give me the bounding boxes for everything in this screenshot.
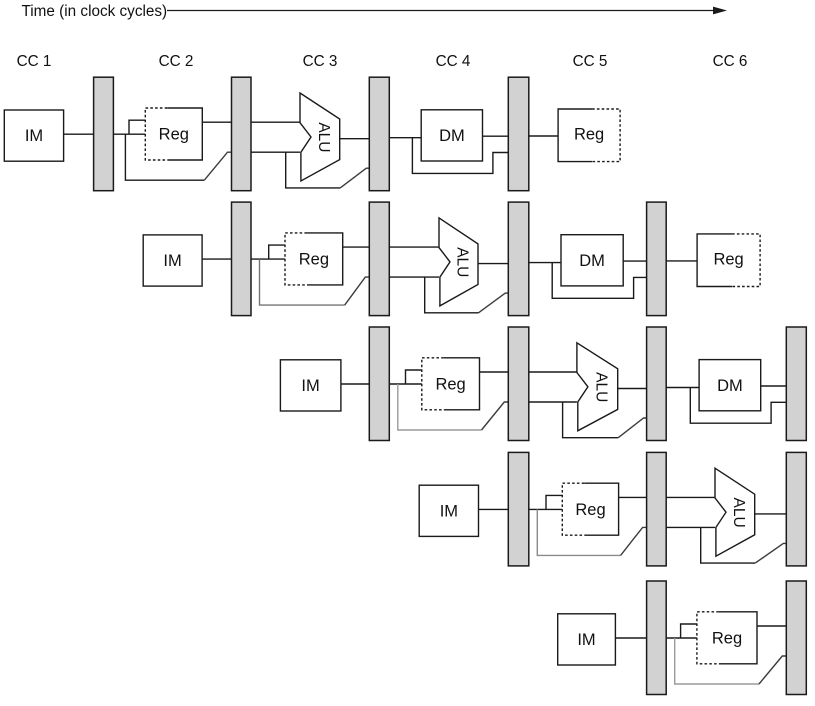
wire Reg4 second read port step <box>546 495 562 509</box>
pipeline register IF/ID (instr 2) <box>232 202 252 316</box>
wire Reg5 second read port step <box>681 624 697 638</box>
instruction memory IM (instr 3) <box>280 360 341 411</box>
wire DM2 data out <box>623 260 646 262</box>
wire write-back to Reg (instr 2) <box>666 260 697 262</box>
svg-text:Reg: Reg <box>435 376 465 394</box>
wire pipeline register to Reg3 read port <box>389 383 422 385</box>
svg-text:ALU: ALU <box>315 122 332 152</box>
instruction memory IM (instr 1) <box>4 110 63 161</box>
wire DM2 write-data bypass <box>552 263 646 299</box>
register file Reg (instr 5) dashed part <box>697 612 719 664</box>
wire ALU3 operand B <box>529 401 577 403</box>
register file write Reg (instr 2) dashed part <box>732 234 760 287</box>
pipeline register EX/MEM (instr 3) <box>647 327 667 441</box>
ALU (instr 4) <box>715 468 755 556</box>
data memory DM (instr 2) <box>561 235 623 286</box>
pipeline register ID/EX (instr 2) <box>369 202 389 316</box>
svg-text:Reg: Reg <box>299 251 329 269</box>
pipeline register EX/MEM (instr 4) <box>786 452 806 566</box>
svg-text:CC 5: CC 5 <box>573 53 608 70</box>
pipeline register ID/EX (instr 4) <box>647 452 667 566</box>
register file Reg (instr 2) solid part <box>307 233 343 285</box>
svg-text:CC 1: CC 1 <box>17 53 52 70</box>
wire ALU1 operand A <box>251 121 300 123</box>
wire Reg2 bypass below <box>260 259 345 305</box>
wire ALU2 bypass diagonal <box>479 293 509 313</box>
wire ALU1 bypass diagonal <box>340 168 369 188</box>
wire pipeline register to Reg1 read port <box>113 133 145 135</box>
wire Reg4 bypass diagonal <box>621 527 647 555</box>
register file write Reg (instr 1) dashed part <box>592 109 620 162</box>
svg-text:ALU: ALU <box>592 372 609 402</box>
register file Reg (instr 1) solid part <box>167 108 202 160</box>
wire ALU1 operand B <box>251 151 300 153</box>
instruction memory IM (instr 2) <box>143 235 202 286</box>
wire Reg3 bypass diagonal <box>482 402 509 430</box>
svg-text:Time (in clock cycles): Time (in clock cycles) <box>22 3 168 20</box>
svg-text:CC 4: CC 4 <box>436 53 471 70</box>
register file Reg (instr 2) dashed part <box>285 233 307 285</box>
pipeline register IF/ID (instr 1) <box>94 77 114 191</box>
wire Reg2 bypass diagonal <box>345 277 370 305</box>
svg-text:Reg: Reg <box>159 126 189 144</box>
pipeline register MEM/WB (instr 2) <box>647 202 667 316</box>
svg-text:IM: IM <box>301 377 319 395</box>
wire DM2 address in <box>529 262 561 264</box>
wire IM5 output to pipeline register <box>615 637 646 639</box>
register file Reg (instr 3) solid part <box>444 358 480 410</box>
data memory DM (instr 1) <box>421 110 482 161</box>
wire Reg5 bypass diagonal <box>759 656 786 684</box>
wire pipeline register to Reg2 read port <box>251 258 285 260</box>
pipeline register IF/ID (instr 3) <box>369 327 389 441</box>
svg-text:CC 2: CC 2 <box>159 53 194 70</box>
svg-text:CC 3: CC 3 <box>303 53 338 70</box>
wire pipeline register to Reg4 read port <box>529 508 563 510</box>
pipeline register ID/EX (instr 5) <box>786 581 806 695</box>
svg-text:CC 6: CC 6 <box>713 53 748 70</box>
svg-text:Reg: Reg <box>713 251 743 269</box>
svg-text:IM: IM <box>577 631 595 649</box>
wire ALU3 operand A <box>529 371 577 373</box>
svg-text:DM: DM <box>717 377 743 395</box>
wire write-back to Reg (instr 1) <box>529 135 558 137</box>
wire ALU4 operand A <box>666 496 715 498</box>
register file Reg (instr 4) solid part <box>584 483 618 535</box>
register file write Reg (instr 1) solid part <box>558 109 592 162</box>
wire Reg3 second read port step <box>406 370 422 384</box>
wire Reg5 read data out <box>757 625 786 627</box>
pipeline register ID/EX (instr 3) <box>508 327 529 441</box>
wire Reg2 second read port step <box>269 245 285 259</box>
pipeline register MEM/WB (instr 3) <box>786 327 806 441</box>
wire DM3 data out <box>761 385 787 387</box>
wire Reg4 read data out <box>619 496 647 498</box>
wire DM3 address in <box>666 387 699 389</box>
wire ALU1 store-data bypass <box>286 152 341 188</box>
svg-text:IM: IM <box>163 252 181 270</box>
wire ALU4 operand B <box>666 526 715 528</box>
wire Reg5 bypass below <box>675 638 759 684</box>
register file Reg (instr 4) dashed part <box>562 483 584 535</box>
wire IM3 output to pipeline register <box>341 383 369 385</box>
ALU (instr 3) <box>577 343 618 431</box>
register file write Reg (instr 2) solid part <box>697 234 732 287</box>
register file Reg (instr 3) dashed part <box>422 358 444 410</box>
wire ALU1 result out <box>340 138 370 140</box>
pipeline register EX/MEM (instr 2) <box>508 202 529 316</box>
pipeline register IF/ID (instr 4) <box>508 452 529 566</box>
ALU (instr 2) <box>439 218 478 306</box>
instruction memory IM (instr 4) <box>419 485 478 536</box>
wire ALU3 bypass diagonal <box>618 418 646 438</box>
wire pipeline register to Reg5 read port <box>666 637 697 639</box>
wire ALU2 operand A <box>389 246 439 248</box>
pipeline register IF/ID (instr 5) <box>647 581 667 695</box>
wire ALU2 operand B <box>389 276 439 278</box>
ALU (instr 1) <box>300 93 340 181</box>
wire ALU4 store-data bypass <box>701 527 756 563</box>
pipeline register MEM/WB (instr 1) <box>508 77 529 191</box>
wire IM1 output to pipeline register <box>64 133 94 135</box>
wire Reg3 read data out <box>480 371 509 373</box>
wire ALU2 result out <box>478 263 508 265</box>
pipeline register EX/MEM (instr 1) <box>369 77 389 191</box>
wire ALU3 result out <box>618 388 647 390</box>
wire ALU4 result out <box>755 513 787 515</box>
wire DM1 address in <box>389 137 421 139</box>
wire Reg1 read data out <box>202 121 231 123</box>
register file Reg (instr 1) dashed part <box>145 108 167 160</box>
instruction memory IM (instr 5) <box>558 614 616 665</box>
wire ALU4 bypass diagonal <box>755 543 786 563</box>
wire IM4 output to pipeline register <box>479 508 509 510</box>
wire ALU2 store-data bypass <box>425 277 479 313</box>
svg-text:Reg: Reg <box>574 126 604 144</box>
wire Reg1 bypass diagonal <box>204 152 231 180</box>
svg-text:ALU: ALU <box>454 247 471 277</box>
register file Reg (instr 5) solid part <box>719 612 757 664</box>
wire Reg1 bypass below <box>125 134 204 180</box>
svg-text:Reg: Reg <box>712 630 742 648</box>
svg-text:Reg: Reg <box>575 501 605 519</box>
wire DM1 write-data bypass <box>412 138 508 174</box>
wire DM3 write-data bypass <box>690 388 786 424</box>
wire Reg2 read data out <box>343 246 370 248</box>
svg-text:DM: DM <box>579 252 605 270</box>
data memory DM (instr 3) <box>699 360 761 411</box>
svg-text:DM: DM <box>439 127 465 145</box>
wire Reg3 bypass below <box>398 384 482 430</box>
wire Reg4 bypass below <box>537 509 620 555</box>
wire IM2 output to pipeline register <box>202 258 231 260</box>
wire ALU3 store-data bypass <box>563 402 619 438</box>
pipeline register ID/EX (instr 1) <box>232 77 252 191</box>
svg-text:IM: IM <box>440 502 458 520</box>
time axis arrow <box>167 10 717 12</box>
wire Reg1 second read port step <box>129 120 145 134</box>
svg-text:ALU: ALU <box>730 498 747 528</box>
wire DM1 data out <box>483 135 509 137</box>
svg-text:IM: IM <box>25 127 43 145</box>
